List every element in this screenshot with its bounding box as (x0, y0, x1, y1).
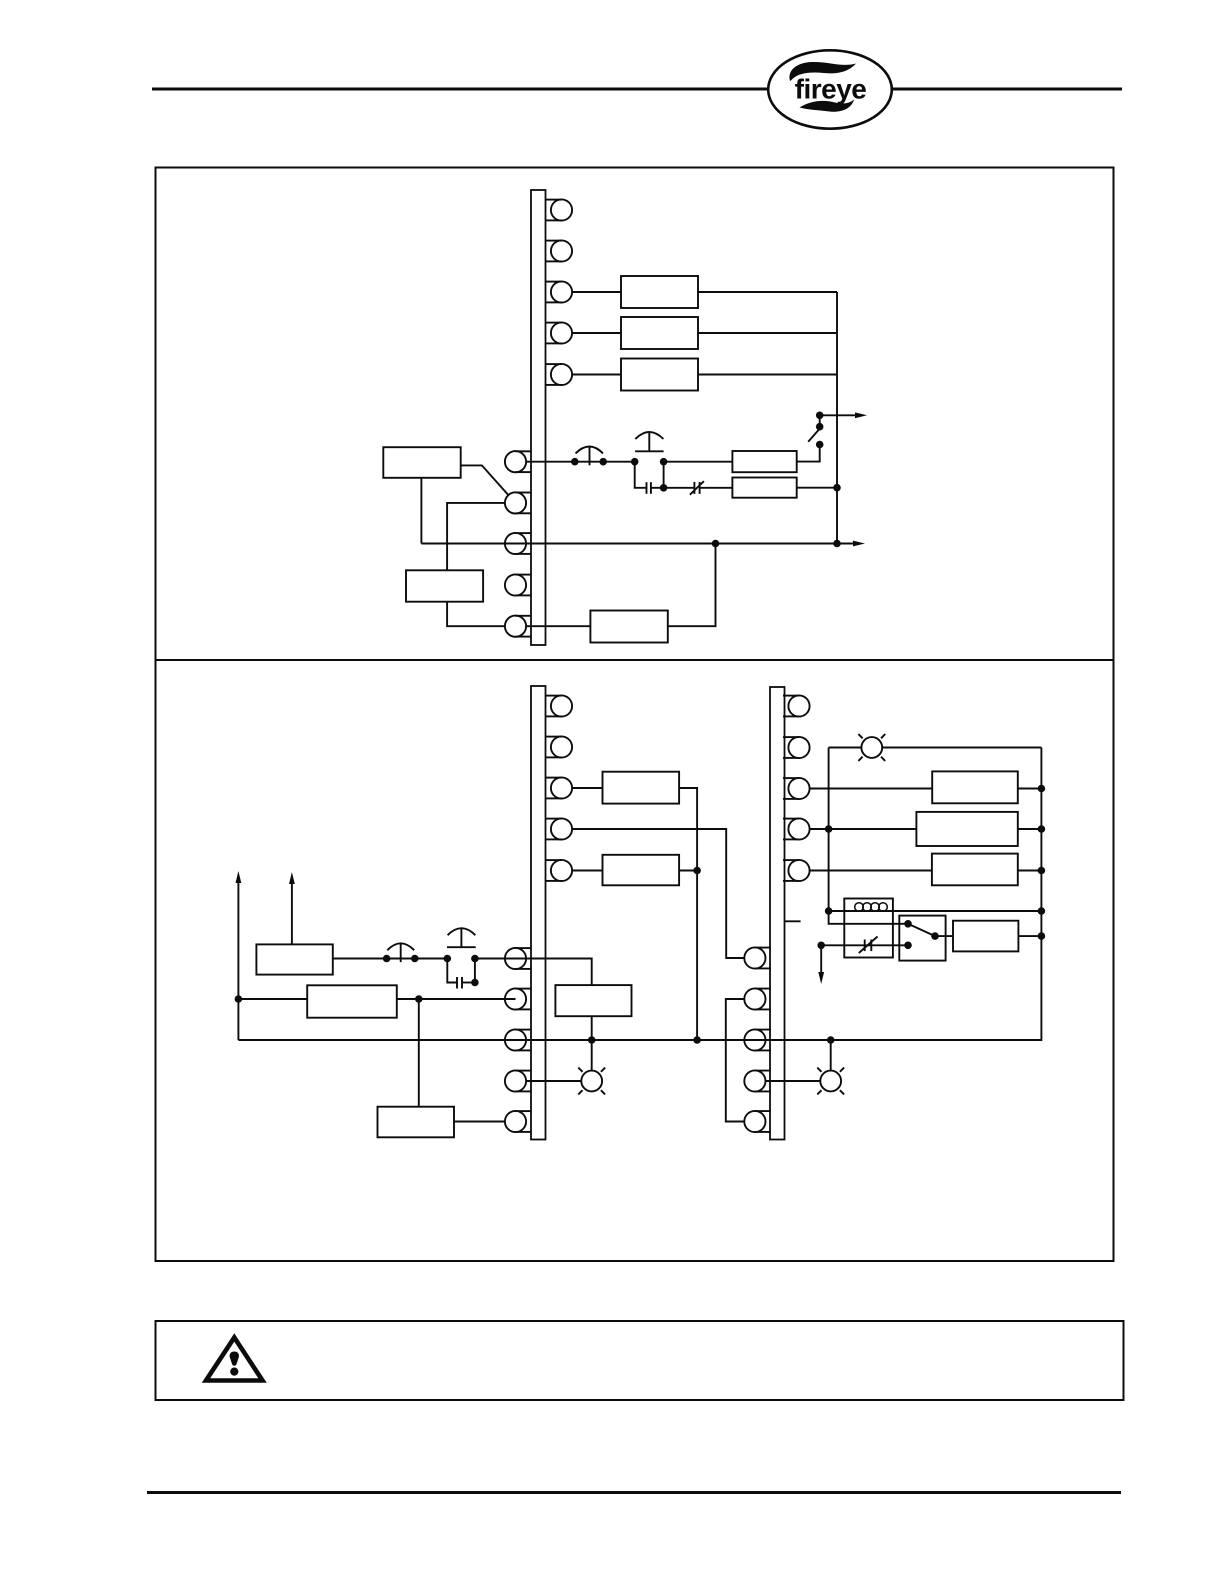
relay K1 (621, 276, 698, 308)
wire K1 to bus (698, 291, 837, 293)
header rule (152, 88, 1122, 91)
relay A2 (603, 855, 680, 886)
relay R2 (732, 478, 796, 498)
strip A bar (531, 686, 546, 1140)
relay B3 (932, 854, 1018, 886)
terminal B-T5L (744, 1111, 771, 1132)
terminal A-T3 (546, 777, 573, 798)
capacitor contact C1 branch (635, 462, 647, 488)
wire T10 to LB3 (526, 625, 590, 627)
footer rule (147, 1491, 1121, 1494)
wire T6 row (526, 461, 635, 463)
wire PS1 to R1 (664, 461, 733, 463)
wire switch S1 output arrow (820, 414, 857, 416)
box LB1 (383, 447, 460, 478)
terminal B-T4L (744, 1070, 771, 1091)
wire B-T5 to relay B3 (810, 870, 932, 872)
wire A-T3 to relay A1 (572, 787, 603, 789)
flame switch FS1 (571, 458, 579, 466)
wire T3 to relay K1 (572, 291, 621, 293)
terminal B-T2 (783, 737, 810, 758)
wire LB3 to T8 junction (668, 544, 716, 627)
wire LB1 bottom to T8 row (420, 478, 422, 544)
wire relay R1 to switch S1 (797, 445, 820, 462)
wire SW to box S (935, 935, 953, 937)
switch box SW (899, 916, 945, 961)
wire T7 to LB2 (447, 503, 505, 570)
pressure switch PS2 (444, 955, 452, 963)
wire B1 to bus (1018, 788, 1042, 790)
flame switch FS2 (383, 955, 391, 963)
terminal T2 (546, 240, 573, 261)
relay K2 (621, 317, 698, 349)
svg-text:fireye: fireye (795, 74, 867, 105)
wire LB1 to T7 (461, 465, 509, 495)
terminal A-T4L (505, 1070, 532, 1091)
wire A1 to drop bus (679, 788, 697, 1040)
arrow up line 2 (291, 881, 293, 945)
NC contact row (821, 944, 908, 946)
wire PS2 to A-T1L and box M (475, 959, 592, 986)
wire B3 to bus (1018, 870, 1042, 872)
strip B terminal B-T1 (783, 695, 810, 716)
warning triangle (206, 1338, 263, 1381)
wire NC1 to R2 (700, 487, 733, 489)
wire box S to bus (1018, 935, 1041, 937)
terminal T6 (505, 451, 532, 472)
wire L2 to A-T2L (397, 998, 516, 1000)
wire A2 to drop bus junction (679, 870, 697, 872)
top diagram frame (156, 168, 1114, 661)
fireye logo oval (768, 50, 892, 128)
wire B-T4L to lamp LB2 (766, 1080, 821, 1082)
terminal T9 (505, 574, 532, 595)
fireye logo lower swoosh (800, 100, 855, 112)
terminal T1 (546, 199, 573, 220)
wire K2 to bus (698, 332, 837, 334)
terminal T8 (505, 533, 532, 554)
wire B-T3 to relay B1 (810, 788, 932, 790)
bottom diagram frame (156, 660, 1114, 1261)
wire junction to box L3 (418, 999, 420, 1107)
wire R2 to bus junction (797, 487, 837, 489)
terminal B-T1L (744, 947, 771, 968)
switch SW contacts (908, 924, 935, 936)
wire L1 to flame switch FS2 (333, 958, 448, 960)
box L3 (378, 1107, 455, 1138)
terminal T3 (546, 281, 573, 302)
coil box (844, 899, 893, 958)
wire box M to lamp LA (591, 1016, 593, 1070)
left feed vertical (829, 748, 908, 924)
wire T5 to relay K3 (572, 374, 621, 376)
terminal T10 (505, 616, 532, 637)
wire B2 to bus (1018, 828, 1042, 830)
terminal B-T2L (744, 988, 771, 1009)
bus vertical wire (836, 292, 838, 544)
relay A1 (603, 772, 680, 804)
NC contact NC2 (864, 940, 866, 952)
wire B-T4 to relay B2 (810, 828, 917, 830)
switch S1 contacts (819, 415, 821, 426)
lamp LA (578, 1068, 605, 1095)
wire row3 long (238, 748, 1041, 1041)
wire C1 to NC contact (664, 487, 695, 489)
relay K3 (621, 359, 698, 391)
box L1 (256, 944, 332, 974)
down arrow (820, 945, 822, 975)
capacitor contact C2 branch (447, 959, 457, 983)
pressure switch PS1 (631, 458, 639, 466)
wire A-T5 to relay A2 (572, 870, 603, 872)
terminal B-T3L (744, 1029, 771, 1050)
lamp LB1 (858, 734, 885, 761)
terminal A-T4 (546, 818, 573, 839)
terminal B-T3 (783, 778, 810, 799)
wire LB1 to bus (882, 747, 1041, 749)
wire LB2 to T10 (447, 602, 505, 627)
terminal T5 (546, 364, 573, 385)
arrow up line 1 (237, 880, 239, 1041)
wire L3 to A-T5L (454, 1121, 505, 1123)
relay B1 (932, 771, 1018, 803)
terminal T7 (505, 492, 532, 513)
fireye logo upper swoosh (789, 62, 856, 81)
strip A terminal A-T1 (546, 695, 573, 716)
relay R1 (732, 451, 796, 472)
wire A-T4L to lamp LA (526, 1080, 581, 1082)
warning exclamation (230, 1352, 239, 1366)
terminal A-T5L (505, 1111, 532, 1132)
NC contact NC1 (693, 482, 695, 494)
box S (953, 921, 1018, 952)
warning note frame (156, 1321, 1124, 1400)
box L2 (307, 985, 397, 1017)
coil wire row (829, 910, 1042, 912)
terminal B-T4 (783, 818, 810, 839)
wire lamp LB1 row (829, 747, 862, 749)
strip B bar (770, 687, 785, 1140)
wire K3 to bus (698, 374, 837, 376)
strip B stub (785, 920, 801, 922)
box M (555, 985, 631, 1016)
wire row2 left (238, 998, 307, 1000)
terminal T4 (546, 322, 573, 343)
relay B2 (916, 812, 1017, 846)
BOTTOM DIAGRAM (531, 686, 785, 1140)
inductor coil (855, 903, 864, 912)
wire T8 row to arrow (421, 543, 856, 545)
box LB3 (590, 611, 667, 643)
terminal A-T5 (546, 860, 573, 881)
terminal A-T2 (546, 736, 573, 757)
box LB2 (406, 570, 483, 601)
terminal B-T5 (783, 860, 810, 881)
strip B left bracket T2-T5 (726, 999, 744, 1122)
wire T4 to relay K2 (572, 332, 621, 334)
terminal A-T2L (505, 988, 532, 1009)
terminal A-T1L (505, 948, 532, 969)
lamp LB2 (817, 1068, 844, 1095)
TOP DIAGRAM (383, 190, 867, 645)
wire lamp LB2 to row3 (830, 1040, 832, 1071)
terminal strip TB1 bar (531, 190, 546, 645)
terminal A-T3L (505, 1029, 532, 1050)
wire A-T4 to B-T1 (572, 829, 744, 958)
